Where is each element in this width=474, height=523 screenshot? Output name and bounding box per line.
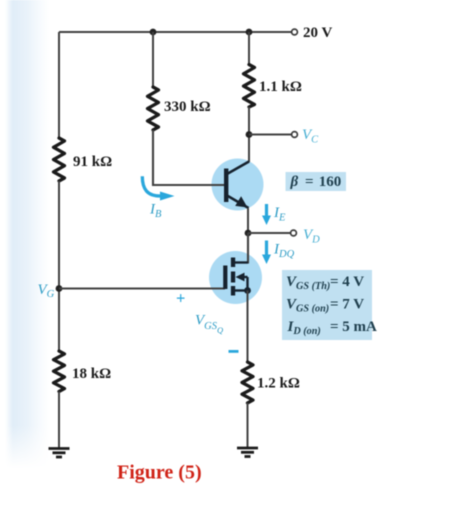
current arrow IB (curved, blue)	[142, 176, 160, 196]
transistor M1 source lead	[234, 289, 248, 291]
transistor M1 gate bar	[223, 266, 227, 290]
label - (source negative)	[229, 350, 239, 353]
svg-text:= 5 mA: = 5 mA	[330, 319, 377, 335]
wire 1.2k to ground	[247, 403, 249, 448]
wire substrate to source	[246, 277, 248, 291]
node junction dot top right	[246, 29, 253, 36]
wire right branch vertical (top rail to 1.1k)	[248, 32, 250, 65]
svg-text:β = 160: β = 160	[290, 174, 342, 190]
resistor 91 kOhm zigzag	[54, 138, 65, 181]
wire VD stub	[248, 232, 291, 234]
wire MOSFET source down to 1.2k	[247, 291, 249, 363]
resistor 18 kOhm zigzag	[54, 351, 65, 392]
wire left branch middle (91k to VG node)	[58, 181, 60, 351]
wire middle branch down then right to BJT base	[153, 130, 224, 185]
node source junction dot	[244, 287, 251, 294]
transistor Q1 base bar	[224, 169, 228, 203]
current arrow IDQ (blue, down)	[265, 241, 268, 257]
transistor M1 drain lead	[234, 261, 248, 263]
terminal 20 V open circle	[292, 29, 298, 35]
wire VD node down to MOSFET drain	[233, 233, 248, 263]
svg-text:1.1 kΩ: 1.1 kΩ	[259, 79, 302, 95]
node VG junction dot	[56, 285, 63, 292]
resistor 1.1 kOhm zigzag	[244, 65, 255, 108]
wire VC stub	[249, 134, 292, 136]
transistor Q1 BJT body circle	[212, 159, 264, 211]
svg-text:= 4 V: = 4 V	[330, 274, 364, 290]
wire left branch lower (18k to ground)	[58, 392, 60, 449]
current arrow IE (blue, down)	[265, 204, 268, 217]
svg-text:+: +	[176, 289, 185, 308]
wire middle branch vertical upper (top rail to 330k)	[152, 32, 154, 87]
node VD junction dot	[245, 230, 252, 237]
terminal VD open circle	[291, 230, 297, 236]
svg-text:20 V: 20 V	[303, 25, 332, 41]
label beta = 160 highlight box	[286, 172, 347, 191]
transistor M1 channel bar top (drain)	[231, 258, 235, 268]
parameter values highlight box	[282, 270, 372, 340]
svg-text:330 kΩ: 330 kΩ	[164, 99, 211, 115]
svg-text:Figure (5): Figure (5)	[117, 462, 202, 484]
node junction dot top middle	[150, 29, 157, 36]
resistor 1.2 kOhm zigzag	[242, 362, 253, 403]
transistor M1 MOSFET body circle	[209, 251, 262, 304]
node VC junction dot	[246, 131, 253, 138]
wire emitter down to VD node	[247, 208, 249, 233]
svg-text:91 kΩ: 91 kΩ	[73, 154, 112, 170]
svg-text:18 kΩ: 18 kΩ	[72, 366, 111, 382]
ground left	[49, 449, 70, 458]
transistor Q1 emitter stroke with arrowhead	[227, 196, 249, 209]
wire 1.1k to VC node and down to BJT collector	[248, 107, 250, 162]
terminal VC open circle	[292, 132, 298, 138]
transistor M1 channel bar middle (substrate)	[231, 272, 235, 283]
ground right	[237, 448, 258, 457]
transistor M1 channel bar bottom (source)	[231, 286, 235, 296]
transistor Q1 collector stroke	[227, 162, 249, 175]
svg-text:1.2 kΩ: 1.2 kΩ	[257, 376, 300, 392]
wire VG to MOSFET gate	[59, 287, 225, 289]
resistor 330 kOhm zigzag	[148, 87, 159, 130]
wire top rail from left branch to 20V terminal	[59, 31, 292, 33]
wire left branch vertical upper (top rail to 91k)	[58, 32, 60, 138]
svg-text:= 7 V: = 7 V	[330, 297, 364, 313]
transistor M1 substrate arrow pointing left	[236, 273, 245, 282]
